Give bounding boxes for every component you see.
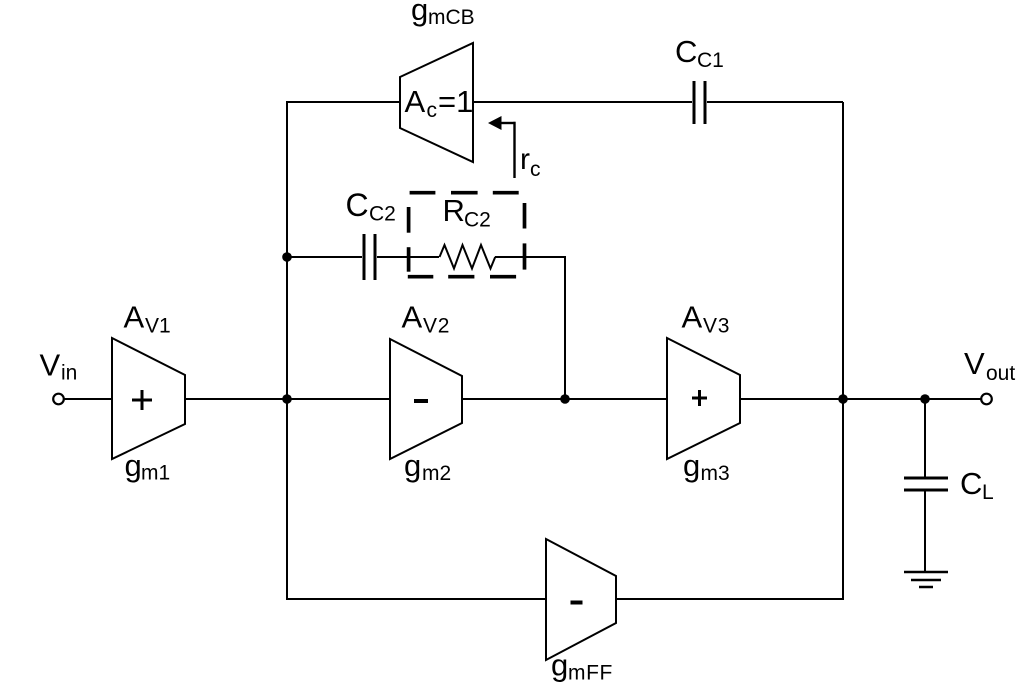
wire top path CC1 to right corner bbox=[707, 101, 843, 103]
wire main horizontal from Vin to AV1 bbox=[64, 398, 113, 400]
current arrow rc into gmCB bbox=[488, 116, 502, 130]
op-amp AV1 (gm1) bbox=[112, 338, 185, 459]
svg-text:C2: C2 bbox=[369, 203, 396, 226]
svg-text:A: A bbox=[402, 300, 423, 335]
op-amp AV3 (gm3) bbox=[667, 338, 740, 459]
output terminal Vout bbox=[981, 394, 992, 405]
svg-text:R: R bbox=[443, 193, 465, 228]
wire CL to ground bbox=[924, 490, 926, 572]
resistor RC2 zigzag bbox=[440, 245, 496, 269]
svg-text:g: g bbox=[411, 0, 428, 27]
minus sign in gmFF bbox=[571, 601, 583, 605]
svg-text:c: c bbox=[427, 99, 438, 122]
svg-text:V1: V1 bbox=[145, 315, 171, 338]
wire top path left segment bbox=[286, 101, 401, 103]
wire bottom path right segment bbox=[616, 598, 844, 600]
plus sign in AV3 bbox=[692, 397, 707, 400]
svg-text:A: A bbox=[405, 84, 426, 119]
svg-text:V: V bbox=[964, 346, 985, 381]
svg-text:c: c bbox=[530, 158, 541, 181]
svg-text:A: A bbox=[682, 300, 703, 335]
node junction dot at AV3 output bbox=[838, 394, 848, 404]
capacitor CC2 plates bbox=[363, 234, 366, 280]
plus sign in AV1 bbox=[132, 399, 152, 402]
wire AV2 output to AV3 input bbox=[462, 398, 668, 400]
node junction dot at AV1 output bbox=[282, 394, 292, 404]
wire middle path to CC2 bbox=[287, 256, 362, 258]
op-amp gmCB (pointing left) bbox=[400, 43, 473, 162]
minus sign in AV2 bbox=[414, 399, 428, 403]
dashed box around RC2 bbox=[408, 193, 525, 277]
svg-text:C: C bbox=[675, 34, 697, 69]
svg-text:m1: m1 bbox=[141, 462, 170, 485]
svg-text:V2: V2 bbox=[423, 315, 450, 338]
wire AV1 output to AV2 input bbox=[185, 398, 391, 400]
svg-text:mFF: mFF bbox=[568, 662, 613, 685]
svg-text:=1: =1 bbox=[438, 84, 473, 119]
input terminal Vin bbox=[53, 394, 64, 405]
svg-text:C1: C1 bbox=[697, 49, 724, 72]
wire resistor to corner bbox=[495, 256, 566, 258]
wire right vertical bus x=843 bbox=[842, 102, 844, 599]
wire CC2 to resistor bbox=[377, 256, 439, 258]
capacitor CL plates bbox=[904, 477, 948, 480]
svg-text:C2: C2 bbox=[464, 209, 491, 232]
node junction dot at AV2 output bbox=[560, 394, 570, 404]
svg-text:g: g bbox=[125, 448, 142, 483]
svg-text:m2: m2 bbox=[422, 462, 451, 485]
wire bottom path left segment bbox=[286, 598, 547, 600]
wire Vout node down to CL bbox=[924, 399, 926, 477]
svg-text:C: C bbox=[960, 466, 982, 501]
svg-text:mCB: mCB bbox=[428, 6, 475, 29]
wire vertical x=565 down to main line bbox=[564, 256, 566, 399]
op-amp gmFF (feedforward) bbox=[546, 539, 616, 660]
svg-text:m3: m3 bbox=[701, 462, 730, 485]
svg-text:out: out bbox=[986, 362, 1015, 385]
svg-text:C: C bbox=[346, 187, 369, 223]
svg-text:L: L bbox=[982, 481, 994, 504]
svg-text:g: g bbox=[404, 448, 421, 483]
node junction dot at CC2 tap bbox=[282, 252, 292, 262]
svg-text:g: g bbox=[551, 648, 568, 683]
wire AV3 output to Vout bbox=[740, 398, 981, 400]
svg-text:V3: V3 bbox=[703, 315, 730, 338]
svg-text:g: g bbox=[683, 448, 700, 483]
wire left vertical bus x=287 bbox=[286, 102, 288, 599]
op-amp AV2 (gm2) bbox=[390, 339, 462, 459]
svg-text:A: A bbox=[124, 300, 145, 335]
ground symbol bbox=[904, 571, 948, 574]
wire top path gmCB output to CC1 bbox=[473, 101, 692, 103]
svg-text:r: r bbox=[520, 143, 530, 176]
node junction dot at CL tap bbox=[920, 394, 930, 404]
svg-text:in: in bbox=[61, 362, 77, 385]
capacitor CC1 plates bbox=[693, 81, 696, 124]
svg-text:V: V bbox=[40, 348, 61, 383]
